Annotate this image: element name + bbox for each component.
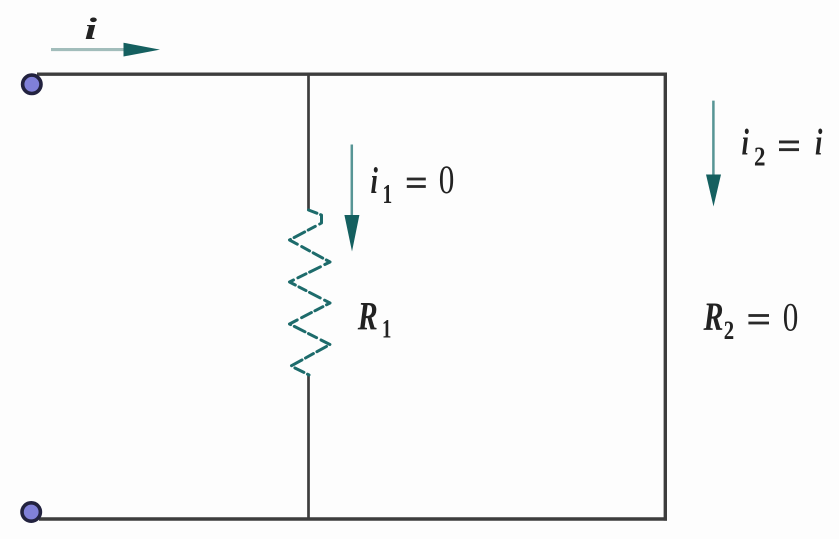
label R1 (resistor value)	[357, 293, 378, 338]
current arrow i (top, pointing right)	[51, 43, 160, 57]
node: bottom-left terminal	[22, 503, 40, 521]
svg-text:i: i	[742, 121, 749, 162]
wire: middle branch upper segment	[307, 74, 310, 210]
label R2 = 0	[703, 294, 724, 339]
current arrow i2 (right branch, pointing down)	[706, 101, 721, 207]
wire: top horizontal	[37, 73, 667, 76]
node: top-left terminal	[23, 75, 41, 93]
svg-text:0: 0	[439, 157, 455, 202]
label i2 = i	[742, 121, 749, 162]
wire: middle branch lower segment	[307, 375, 310, 519]
svg-text:R: R	[357, 293, 378, 338]
label i (top arrow)	[85, 13, 98, 47]
svg-text:1: 1	[383, 180, 393, 210]
svg-text:i: i	[371, 160, 378, 201]
label i1 = 0	[371, 160, 378, 201]
svg-text:R: R	[703, 294, 724, 339]
svg-text:2: 2	[754, 143, 765, 172]
wire: right vertical	[664, 73, 667, 521]
svg-text:i: i	[815, 121, 822, 162]
current arrow i1 (middle branch, pointing down)	[344, 145, 359, 252]
resistor R1 (sketchy dashed zigzag)	[290, 210, 331, 375]
svg-text:0: 0	[783, 295, 799, 340]
wire: bottom horizontal	[39, 517, 667, 521]
svg-text:1: 1	[382, 315, 391, 344]
svg-text:2: 2	[724, 317, 734, 346]
svg-text:i: i	[85, 13, 98, 47]
